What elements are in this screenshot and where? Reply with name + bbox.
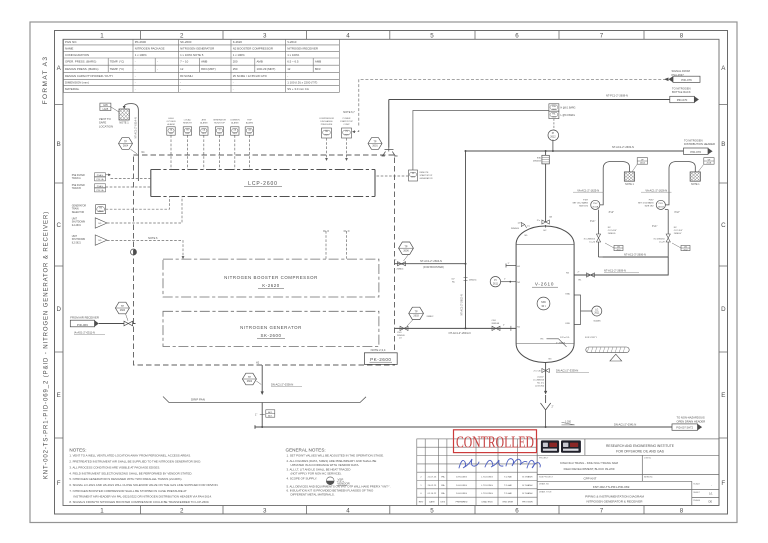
svg-text:26ND05: 26ND05 — [608, 233, 616, 235]
tail filter tag A — [632, 158, 648, 172]
svg-text:DIFFERENT METAL MATERIALS.: DIFFERENT METAL MATERIALS. — [291, 493, 335, 497]
svg-text:CONTROLLED: CONTROLLED — [456, 433, 534, 452]
scope of supply symbols — [326, 477, 347, 486]
air inlet pipe — [99, 323, 136, 325]
svg-text:1: 1 — [100, 32, 104, 39]
svg-text:B.T.HANH: B.T.HANH — [522, 484, 532, 487]
svg-text:2604: 2604 — [123, 145, 129, 148]
svg-text:NOTE 6,7: NOTE 6,7 — [343, 110, 355, 114]
SK-2600 label — [240, 325, 302, 338]
svg-text:NITROGEN RECEIVER: NITROGEN RECEIVER — [287, 46, 318, 50]
svg-text:NITROGEN GENERATOR: NITROGEN GENERATOR — [180, 46, 214, 50]
svg-text:4: 4 — [346, 32, 350, 39]
svg-text:AMB: AMB — [201, 60, 207, 64]
svg-text:DISCHARGE: DISCHARGE — [320, 120, 333, 123]
svg-text:LCP-2600: LCP-2600 — [248, 181, 278, 187]
left instrument row 1: PSE filter train A — [72, 175, 85, 180]
svg-text:L @5.0 BARG: L @5.0 BARG — [561, 114, 576, 117]
svg-text:1 x 100% NOTE 5: 1 x 100% NOTE 5 — [180, 53, 204, 57]
svg-text:2611B: 2611B — [658, 206, 665, 208]
svg-text:(C)1/2": (C)1/2" — [537, 377, 544, 379]
svg-text:12: 12 — [287, 67, 291, 71]
svg-text:PSV: PSV — [659, 203, 664, 205]
svg-text:24.02.23: 24.02.23 — [428, 485, 437, 487]
svg-text:7 ~ 10: 7 ~ 10 — [180, 60, 189, 64]
svg-text:NOTE 1: NOTE 1 — [691, 183, 700, 186]
XS-2612 square — [409, 170, 418, 181]
to nitrogen bottle rack text — [672, 87, 691, 95]
svg-text:2" 26ND8: 2" 26ND8 — [556, 342, 566, 344]
svg-text:1 x 100%: 1 x 100% — [233, 53, 245, 57]
svg-text:TEMP. (°C): TEMP. (°C) — [110, 67, 124, 71]
svg-text:PGN NO.: PGN NO. — [65, 40, 77, 44]
svg-text:DIMENSION (mm): DIMENSION (mm) — [65, 80, 89, 84]
svg-text:B.T.HANH: B.T.HANH — [522, 475, 532, 478]
svg-text:TO NITROGEN: TO NITROGEN — [684, 138, 703, 142]
svg-text:SS + 3.0 mm CA: SS + 3.0 mm CA — [287, 87, 309, 91]
svg-text:3"x2": 3"x2" — [674, 212, 680, 214]
to open drain text — [677, 416, 706, 424]
svg-text:PSA H: PSA H — [97, 174, 104, 177]
svg-text:ALARM: ALARM — [200, 121, 207, 124]
svg-text:JOB No: JOB No — [644, 458, 652, 460]
CB valve at vessel top — [542, 220, 549, 224]
svg-text:NAME: NAME — [65, 46, 73, 50]
svg-text:VA-AC1-2"-1626-N: VA-AC1-2"-1626-N — [645, 188, 667, 192]
svg-text:DESIGN CAPACITY/POWER / DUTY: DESIGN CAPACITY/POWER / DUTY — [65, 74, 113, 78]
svg-text:-: - — [157, 67, 158, 71]
XS-2612 caption — [420, 172, 433, 180]
svg-text:NITROGEN GENERATOR: NITROGEN GENERATOR — [240, 325, 302, 330]
left instrument row 4: unit shutdown IL-2601 — [72, 218, 86, 226]
svg-text:LOCAL/: LOCAL/ — [184, 118, 192, 121]
svg-text:N2 BOOSTER COMPRESSOR: N2 BOOSTER COMPRESSOR — [233, 46, 273, 50]
svg-text:26ND07: 26ND07 — [674, 233, 682, 235]
svg-text:2606: 2606 — [403, 250, 409, 253]
svg-text:C: C — [56, 222, 61, 229]
svg-text:CSO: CSO — [492, 320, 497, 322]
svg-text:PID-007 SHT2: PID-007 SHT2 — [676, 426, 693, 430]
svg-text:NT-AC1-2"-2609-N: NT-AC1-2"-2609-N — [604, 269, 626, 273]
K-2620 label — [224, 275, 318, 288]
svg-text:IFA: IFA — [441, 492, 445, 495]
svg-text:-: - — [135, 60, 136, 64]
svg-text:IL2-2621: IL2-2621 — [72, 242, 82, 244]
valve texts B — [674, 227, 683, 235]
svg-text:2": 2" — [503, 325, 505, 327]
svg-text:8: 8 — [680, 32, 684, 39]
svg-text:SHUTDOWN: SHUTDOWN — [72, 222, 86, 224]
svg-text:PSE FILTER: PSE FILTER — [72, 175, 85, 177]
svg-text:4. SCOPE OF SUPPLY:: 4. SCOPE OF SUPPLY: — [287, 476, 318, 480]
svg-text:2611: 2611 — [616, 249, 620, 251]
vessel outlet H4 line NT-2609 — [574, 257, 668, 275]
row ticks right — [719, 105, 728, 439]
svg-text:TP: TP — [124, 141, 127, 144]
svg-text:TO NON-HAZARDOUS: TO NON-HAZARDOUS — [677, 416, 705, 420]
svg-text:LEAD ENG: LEAD ENG — [481, 501, 492, 504]
svg-text:ALARM: ALARM — [246, 121, 253, 124]
svg-text:2621: 2621 — [344, 134, 348, 136]
svg-text:PDI LA: PDI LA — [97, 189, 104, 192]
svg-text:3"x2": 3"x2" — [609, 212, 615, 214]
svg-text:TP: TP — [248, 376, 251, 379]
svg-text:-: - — [180, 80, 181, 84]
PID-070 flag (distribution) — [684, 148, 713, 154]
svg-text:2611: 2611 — [493, 282, 499, 285]
svg-text:2601: 2601 — [372, 145, 378, 148]
svg-text:2612: 2612 — [411, 176, 415, 178]
svg-text:GENERATOR: GENERATOR — [213, 118, 226, 121]
vent pipe with arc — [124, 104, 138, 181]
riser header to vessel top — [545, 151, 547, 228]
generator outlet line NT-2601 — [395, 327, 517, 329]
svg-text:SET @12 BARG: SET @12 BARG — [573, 202, 589, 205]
svg-text:NOTE 2,3,4: NOTE 2,3,4 — [371, 348, 386, 352]
svg-text:5: 5 — [430, 32, 434, 39]
drain continue below pan — [261, 403, 263, 428]
svg-text:K-2620: K-2620 — [233, 40, 243, 44]
svg-text:80 SCMH: 80 SCMH — [180, 74, 193, 78]
svg-text:2611: 2611 — [594, 313, 600, 315]
LCP-2600 label — [248, 181, 278, 187]
svg-text:NOTES:: NOTES: — [69, 448, 86, 453]
svg-text:GENERAL NOTES:: GENERAL NOTES: — [286, 448, 326, 453]
svg-text:LC-29: LC-29 — [659, 242, 666, 244]
signal from PSA-2637 text — [672, 69, 691, 77]
TP-2600 hexagon — [115, 302, 129, 321]
svg-text:K3A: K3A — [566, 292, 571, 295]
svg-text:REV: REV — [419, 502, 424, 504]
svg-text:6. SIGNAL LO-2621 AND HS-2621: 6. SIGNAL LO-2621 AND HS-2621 WILL CLOSE… — [69, 483, 218, 487]
svg-text:2. PRETREATED INSTRUMENT AIR: 2. PRETREATED INSTRUMENT AIR SHALL BE SU… — [69, 460, 201, 464]
title block frame — [537, 439, 719, 506]
svg-text:1 x 100%: 1 x 100% — [287, 53, 299, 57]
svg-text:AMB: AMB — [315, 60, 321, 64]
inlet valve B — [666, 234, 670, 242]
svg-text:NITROGEN PACKAGE: NITROGEN PACKAGE — [135, 46, 165, 50]
svg-text:-: - — [233, 87, 234, 91]
svg-text:-: - — [233, 80, 234, 84]
svg-text:LO: LO — [399, 338, 402, 340]
svg-text:K3B: K3B — [566, 323, 571, 325]
instrument square tags — [169, 129, 252, 135]
utility connection H5 with blanket — [541, 336, 630, 361]
svg-text:261A: 261A — [640, 162, 645, 165]
svg-text:VA-AC1-2"-1625-N: VA-AC1-2"-1625-N — [577, 188, 599, 192]
svg-text:4. FIELD INSTRUMENT SELECTION: 4. FIELD INSTRUMENT SELECTION/SIZING SHA… — [69, 471, 192, 475]
LCP top instrument squares row — [167, 127, 254, 135]
vessel top nozzle labels — [511, 223, 547, 237]
svg-text:LC: LC — [527, 226, 530, 228]
svg-text:250: 250 — [233, 67, 238, 71]
svg-text:100/-29 (MDT): 100/-29 (MDT) — [257, 67, 276, 71]
CONTROLLED stamp — [454, 430, 537, 453]
svg-text:1/1: 1/1 — [709, 491, 713, 495]
TP-2604 hexagon (vent) — [119, 138, 146, 154]
svg-text:1": 1" — [255, 413, 257, 416]
svg-text:261B: 261B — [706, 163, 711, 165]
svg-text:D: D — [721, 306, 726, 313]
drain tag A — [605, 243, 623, 251]
svg-text:3"x1": 3"x1" — [652, 226, 658, 228]
svg-text:3"x1": 3"x1" — [590, 221, 596, 223]
svg-text:B: B — [57, 141, 61, 148]
svg-text:PSH: PSH — [552, 106, 557, 108]
drawing frame outer — [55, 31, 728, 515]
svg-text:FOR OFFSHORE OIL AND GAS: FOR OFFSHORE OIL AND GAS — [616, 449, 665, 453]
svg-text:PSE FILTER: PSE FILTER — [72, 185, 85, 187]
institute logo 2 — [561, 440, 581, 452]
set pressure text B — [638, 200, 654, 208]
svg-text:1 100 (I.D) x 2200 (T/T): 1 100 (I.D) x 2200 (T/T) — [287, 80, 317, 84]
svg-text:-: - — [157, 60, 158, 64]
vent tag box — [100, 103, 119, 112]
PI-2612 gauge — [548, 130, 559, 141]
PSV-2611A relief valve — [591, 200, 600, 209]
svg-text:INSTRUMENT AIR HEADER VIA PAL-: INSTRUMENT AIR HEADER VIA PAL-0321/0322 … — [73, 495, 212, 499]
svg-text:IA-AG1-2"-0511-N: IA-AG1-2"-0511-N — [74, 330, 95, 334]
PSV header line NT-2606 — [602, 256, 668, 258]
PA/YS signal drops to boundary — [327, 138, 347, 159]
generator box SK-2600 — [163, 311, 379, 346]
TP-2603 hexagon — [407, 307, 434, 326]
svg-text:D.H.DUNG: D.H.DUNG — [456, 493, 467, 495]
booster feed line NT-2604 — [395, 263, 466, 265]
svg-text:NT-AC1-2"-2602-N: NT-AC1-2"-2602-N — [460, 294, 463, 315]
svg-text:SHUTDOWN: SHUTDOWN — [72, 239, 86, 241]
equipment summary table grid — [64, 39, 340, 92]
vessel nozzle H1 stub — [506, 264, 516, 268]
svg-text:OXYGEN: OXYGEN — [167, 121, 176, 123]
riser from regulator to bottle rack line — [388, 100, 390, 148]
svg-text:L.T.DUONG: L.T.DUONG — [481, 476, 493, 478]
svg-text:NOTE 1: NOTE 1 — [625, 183, 634, 186]
svg-text:KNT-002-TS-PR1-PID-069_2 (P&ID: KNT-002-TS-PR1-PID-069_2 (P&ID - NITROGE… — [44, 211, 50, 479]
drain tag B — [672, 243, 690, 251]
svg-text:C: C — [721, 222, 726, 229]
svg-text:2612: 2612 — [550, 136, 556, 139]
svg-text:2: 2 — [180, 508, 184, 515]
SECTION: title block — [417, 430, 719, 506]
svg-text:K-2620: K-2620 — [262, 283, 279, 288]
compressor box K-2620 — [163, 259, 379, 297]
svg-text:D.H.DUNG: D.H.DUNG — [456, 476, 467, 478]
svg-text:F: F — [57, 480, 61, 487]
svg-text:B: B — [721, 141, 725, 148]
svg-text:V-2610: V-2610 — [287, 40, 297, 44]
PSV train B — [638, 158, 714, 257]
svg-text:3. ALL PROCESS CONDITIONS ARE: 3. ALL PROCESS CONDITIONS ARE VISIBLE AT… — [69, 465, 160, 469]
svg-text:LOCATION: LOCATION — [99, 124, 113, 128]
svg-text:FIELD DEVELOPMENT, BLOCK 09-2/: FIELD DEVELOPMENT, BLOCK 09-2/09 — [564, 467, 615, 471]
svg-text:UNIT: UNIT — [72, 236, 78, 238]
svg-text:COMP: COMP — [343, 124, 350, 126]
svg-text:MATERIAL: MATERIAL — [65, 87, 80, 91]
drain spec break tag — [266, 410, 275, 418]
svg-text:NT-AC1-3"-2606-N: NT-AC1-3"-2606-N — [624, 252, 646, 256]
svg-text:DRIP PAN: DRIP PAN — [191, 398, 205, 402]
svg-text:AMB: AMB — [257, 60, 263, 64]
bypass riser NT-2602 — [465, 151, 467, 328]
svg-text:PHASE: PHASE — [693, 499, 700, 502]
svg-text:4: 4 — [346, 508, 350, 515]
svg-text:2603: 2603 — [413, 315, 419, 318]
svg-text:3: 3 — [263, 32, 267, 39]
tangent lines — [516, 244, 574, 343]
svg-text:T.D.HAI: T.D.HAI — [504, 484, 512, 487]
svg-text:D: D — [56, 306, 61, 313]
signal wire row2 to LCP — [106, 186, 151, 188]
signal line PSHL to XS-2612 — [413, 111, 549, 171]
svg-text:REMOTE: REMOTE — [420, 172, 430, 174]
svg-text:BOTTLE RACK: BOTTLE RACK — [672, 90, 691, 94]
nitrogen distribution header line — [466, 150, 684, 152]
svg-text:ALARM: ALARM — [167, 123, 174, 126]
svg-text:TEMP. (°C): TEMP. (°C) — [110, 60, 124, 64]
PSV-2611B relief valve — [656, 200, 665, 209]
tail filter B (crosshatch) — [690, 172, 700, 181]
svg-text:CCO 3/4": CCO 3/4" — [674, 230, 683, 232]
svg-text:KNT-002-TS-PR1-PID-069: KNT-002-TS-PR1-PID-069 — [593, 485, 630, 489]
svg-text:L.T.DUONG: L.T.DUONG — [481, 485, 493, 487]
svg-text:2602: 2602 — [247, 133, 251, 135]
pressure let-down station at boundary — [382, 148, 398, 157]
valve on 2601 at boundary — [400, 326, 408, 330]
outlet B with arc to filter — [665, 162, 695, 205]
svg-text:COMMON: COMMON — [230, 119, 240, 121]
drawing frame inner — [63, 39, 719, 505]
svg-text:ATM: ATM — [202, 118, 207, 121]
svg-text:DN-AC1-2"-3339-N: DN-AC1-2"-3339-N — [556, 369, 578, 373]
air inlet valve — [124, 321, 133, 326]
svg-text:START/STOP: START/STOP — [420, 174, 433, 177]
svg-text:L.T.DUONG: L.T.DUONG — [481, 493, 493, 495]
SECTION: vessel area — [255, 158, 714, 431]
svg-text:TP: TP — [415, 311, 418, 314]
svg-text:26ND2: 26ND2 — [427, 316, 435, 318]
signal wire row1 to LCP — [111, 178, 151, 180]
svg-text:HIGH: HIGH — [168, 118, 174, 120]
svg-text:PREPARED: PREPARED — [456, 501, 468, 504]
svg-text:2"⌀ CB: 2"⌀ CB — [534, 370, 541, 373]
XS-2612 signal to LCP — [375, 175, 409, 177]
institute logo 1 — [541, 440, 559, 452]
svg-text:26ND4: 26ND4 — [397, 269, 405, 271]
svg-text:T.D.HAI: T.D.HAI — [504, 492, 512, 495]
vessel bottom drain — [545, 363, 547, 404]
svg-text:NC 2"⌀: NC 2"⌀ — [537, 382, 544, 385]
svg-text:5. NITROGEN GENERATOR IS DESI: 5. NITROGEN GENERATOR IS DESIGNED WITH T… — [69, 477, 182, 481]
table row labels — [65, 40, 124, 91]
instrument square captions — [167, 118, 254, 126]
svg-text:1. VENT TO A WELL VENTILATED: 1. VENT TO A WELL VENTILATED LOCATION AW… — [69, 454, 191, 458]
svg-text:GENERATOR: GENERATOR — [72, 205, 87, 208]
compressor signal continuation T-posts — [323, 231, 350, 259]
svg-text:2612: 2612 — [683, 249, 687, 251]
svg-text:TRAIN A: TRAIN A — [72, 177, 81, 180]
reducer marks on riser — [464, 278, 468, 281]
svg-text:-: - — [135, 87, 136, 91]
svg-text:TP: TP — [121, 305, 124, 308]
svg-text:5: 5 — [430, 508, 434, 515]
svg-text:FORMAT A3: FORMAT A3 — [42, 56, 49, 105]
svg-text:DN-AC1-2"-0336-N: DN-AC1-2"-0336-N — [271, 382, 293, 386]
PSHL to PI dashed — [553, 119, 555, 131]
valve texts A — [608, 227, 617, 235]
svg-text:3: 3 — [263, 508, 267, 515]
svg-text:2": 2" — [395, 260, 397, 262]
svg-text:1: 1 — [100, 508, 104, 515]
drip pan — [163, 397, 366, 403]
svg-text:2": 2" — [552, 407, 554, 409]
svg-text:6.5 ~ 6.5: 6.5 ~ 6.5 — [287, 60, 299, 64]
column ticks top — [141, 31, 645, 40]
hatched blanket — [586, 347, 629, 353]
svg-text:F187: F187 — [583, 200, 589, 202]
svg-text:1/2"⌀-CCL: 1/2"⌀-CCL — [560, 336, 571, 339]
svg-text:NT-PC1-2"-2608-N: NT-PC1-2"-2608-N — [606, 94, 628, 98]
svg-text:26ND08: 26ND08 — [492, 323, 500, 325]
svg-text:TRAIN: TRAIN — [72, 208, 79, 211]
svg-text:PSA H: PSA H — [97, 185, 104, 188]
svg-text:NC: NC — [674, 227, 678, 229]
svg-text:(FOR BOOSTER): (FOR BOOSTER) — [423, 265, 444, 269]
svg-text:DRAW. TITLE: DRAW. TITLE — [539, 491, 552, 494]
svg-text:NOTE 6: NOTE 6 — [148, 236, 158, 240]
svg-text:26ND09: 26ND09 — [397, 335, 405, 337]
svg-text:26ND11: 26ND11 — [469, 280, 477, 282]
svg-text:PIPING & INSTRUMENTATION DIAGR: PIPING & INSTRUMENTATION DIAGRAM — [585, 495, 644, 499]
N5 LC valve — [521, 223, 526, 228]
set pressure text A — [573, 200, 589, 208]
signal wire row3 to LCP bottom — [106, 197, 170, 210]
svg-text:SELECTOR: SELECTOR — [72, 212, 85, 214]
left instrument row 3: generator train selector HS-2601 — [72, 205, 87, 214]
svg-text:PID-076: PID-076 — [681, 78, 692, 82]
PID-070 flag (bottle rack) — [670, 96, 699, 102]
svg-text:DESIGN PRESS. (BARG): DESIGN PRESS. (BARG) — [65, 67, 98, 71]
svg-text:SIZE 1E2: SIZE 1E2 — [579, 206, 589, 208]
svg-text:NITROGEN GENERATOR & RECEIVER: NITROGEN GENERATOR & RECEIVER — [586, 499, 643, 503]
svg-text:25 SCMH / 12.55 kW GTD: 25 SCMH / 12.55 kW GTD — [233, 74, 267, 78]
svg-text:-: - — [711, 484, 712, 487]
svg-text:DE: DE — [709, 500, 713, 504]
svg-text:12: 12 — [180, 67, 184, 71]
notes body — [69, 454, 218, 505]
svg-text:V-2610: V-2610 — [535, 282, 554, 287]
svg-text:80/3 (MDT): 80/3 (MDT) — [201, 67, 216, 71]
svg-text:1/2": 1/2" — [518, 223, 522, 225]
support triangle — [610, 354, 622, 361]
svg-text:-: - — [287, 74, 288, 78]
instrument signal drops to LCP — [171, 135, 249, 169]
Y strainer — [541, 403, 551, 427]
institute name — [606, 444, 675, 454]
svg-text:SD: SD — [98, 223, 101, 225]
TP-2602 hexagon — [242, 373, 261, 385]
svg-text:LG: LG — [595, 309, 598, 311]
left instrument row 5: unit shutdown IL-2621 — [72, 236, 86, 244]
svg-text:COMPRESSOR: COMPRESSOR — [319, 118, 335, 120]
TP-2606 hexagon — [399, 242, 414, 261]
svg-text:PID-070: PID-070 — [677, 98, 688, 102]
general notes body — [287, 454, 391, 497]
svg-text:2612: 2612 — [552, 109, 556, 111]
row ticks left — [55, 105, 64, 439]
svg-text:SIGNAL FROM: SIGNAL FROM — [672, 69, 691, 73]
svg-text:NC: NC — [452, 282, 456, 284]
